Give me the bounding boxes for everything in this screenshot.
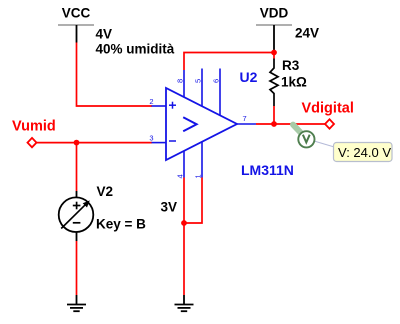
op-amp plus mark (169, 102, 176, 109)
pin 2 (152, 105, 167, 107)
ground under 3V node (175, 295, 194, 311)
pin 1 (201, 142, 203, 178)
svg-text:Key = B: Key = B (96, 217, 146, 232)
op-amp minus mark (169, 140, 176, 142)
svg-text:V: 24.0 V: V: 24.0 V (338, 145, 391, 160)
power symbol VDD (256, 6, 292, 53)
svg-text:4V: 4V (96, 27, 113, 42)
svg-text:R3: R3 (282, 58, 300, 73)
pin 6 (219, 69, 221, 116)
junction output node (271, 121, 277, 127)
terminal Vumid (28, 138, 37, 147)
pin 8 (183, 70, 185, 98)
wire pin4 to ground (183, 178, 185, 296)
svg-text:6: 6 (212, 79, 221, 83)
svg-text:U2: U2 (240, 69, 258, 85)
junction VDD node (271, 50, 277, 56)
power symbol VCC (58, 6, 94, 43)
probe readout box V: 24.0 V (334, 143, 393, 162)
svg-text:2: 2 (149, 97, 153, 106)
ground under V2 (67, 295, 86, 311)
svg-text:LM311N: LM311N (241, 162, 294, 178)
svg-text:8: 8 (176, 79, 185, 83)
wire VCC to pin2 (77, 43, 153, 107)
pin 4 (183, 151, 185, 178)
op-amp comparator mark (183, 117, 196, 131)
wire V2 to ground (76, 241, 78, 295)
junction Vumid/V2 (74, 140, 80, 146)
svg-text:3: 3 (149, 133, 153, 142)
node Vumid wire (36, 142, 152, 144)
probe connector line (314, 141, 336, 148)
pin 5 (201, 69, 203, 107)
wire pin7 to Vdigital (256, 123, 326, 125)
svg-text:Vdigital: Vdigital (302, 101, 354, 117)
svg-text:1kΩ: 1kΩ (281, 75, 307, 90)
probe lead (293, 125, 301, 133)
terminal Vdigital (325, 119, 334, 128)
op-amp U2 triangle (166, 88, 237, 160)
svg-text:24V: 24V (295, 26, 319, 41)
svg-text:VDD: VDD (260, 6, 289, 21)
svg-text:5: 5 (194, 79, 203, 83)
svg-text:40% umidità: 40% umidità (96, 42, 175, 57)
pin 7 (237, 123, 257, 125)
wire pin8 to VDD node (184, 53, 274, 71)
junction 3V node (181, 220, 187, 226)
svg-text:Vumid: Vumid (12, 119, 56, 135)
wire Vumid node to V2 (76, 143, 78, 191)
resistor R3 (270, 53, 278, 125)
wire pin1 to 3V node (184, 178, 202, 224)
source V2 (59, 191, 94, 241)
svg-text:VCC: VCC (62, 6, 91, 21)
probe V circle (298, 131, 314, 147)
svg-text:3V: 3V (161, 200, 178, 215)
pin 3 (152, 142, 167, 144)
svg-text:7: 7 (243, 114, 247, 123)
svg-text:V2: V2 (97, 184, 114, 199)
